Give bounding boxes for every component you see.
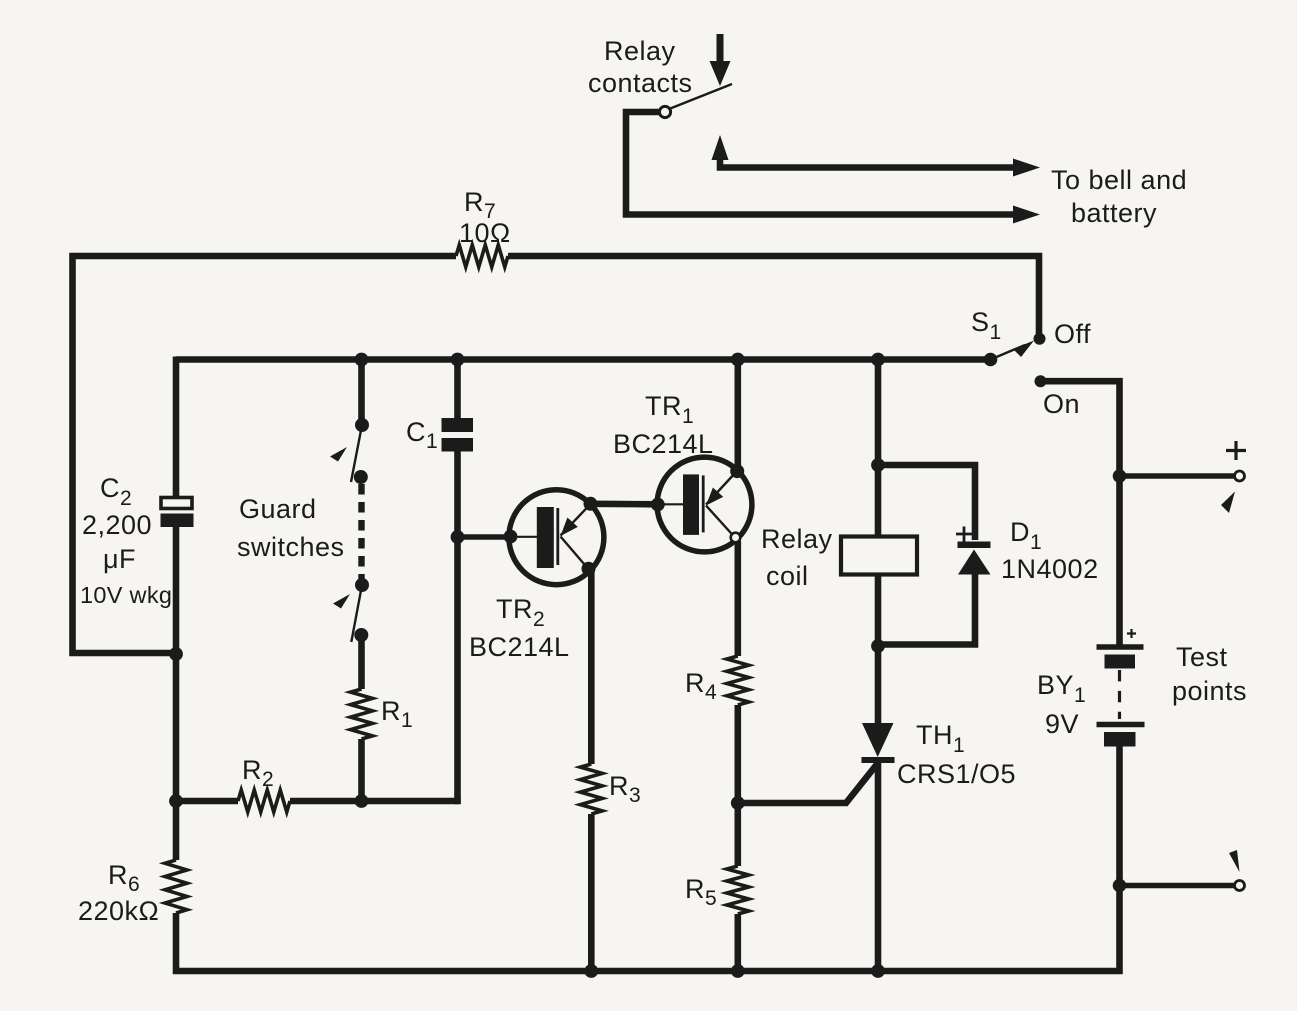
wire: TR1 emitter up to inner rail (734, 360, 741, 472)
arrow: guard switch lower actuation arrow (333, 594, 350, 609)
wire: upper test point lead (1120, 473, 1235, 478)
arrow: lower test probe (1229, 850, 1240, 872)
wire: lower test point lead (1120, 883, 1235, 888)
resistor R3 (580, 764, 602, 814)
wire: top rail right segment down to S1 Off terminal (508, 256, 1039, 334)
svg-text:BC214L: BC214L (469, 632, 570, 662)
label: To bell and battery (1051, 165, 1187, 228)
wire: inner top rail (176, 356, 991, 363)
svg-text:9V: 9V (1045, 709, 1079, 739)
wire: R1 to R2 wire (358, 739, 365, 801)
label: TR2 BC214L (469, 594, 570, 662)
node: TR2 collector terminal (582, 562, 596, 576)
wire: bell output line with up arrow (712, 135, 1041, 177)
capacitor C2 (161, 498, 194, 528)
svg-text:On: On (1043, 389, 1080, 419)
node: TH1 on bottom rail (871, 964, 885, 978)
diode D1 (956, 527, 991, 575)
label: + upper test point (1226, 441, 1246, 460)
wire: gate junction to R5 (734, 803, 741, 866)
node: upper test point terminal (1235, 471, 1245, 481)
node: junction R2 / R6 column (169, 794, 183, 808)
svg-text:CRS1/O5: CRS1/O5 (897, 759, 1016, 789)
transistor TR1 BC214L (657, 457, 752, 552)
svg-text:220kΩ: 220kΩ (78, 896, 159, 926)
label: Guard switches (237, 494, 345, 562)
wire: C1 bottom lead down to R2 wire (458, 452, 461, 802)
transistor TR2 BC214L (509, 490, 604, 585)
wire: D1 junction down to TH1 anode (875, 646, 882, 726)
wire: TR2 collector down to R3 (588, 569, 595, 764)
label: Relay coil (761, 524, 833, 591)
node: lower test point junction (1113, 879, 1127, 893)
node: TR2 base junction on C1 wire (451, 530, 465, 544)
battery BY1 (1097, 629, 1145, 747)
wire: D1 loop top (878, 465, 975, 540)
wire: TH1 gate lead (738, 764, 878, 804)
svg-text:BC214L: BC214L (613, 429, 714, 459)
wire: C2 bottom lead down through R2 junction to R6 (173, 527, 180, 860)
wire: TR1 collector down to R4 (734, 541, 741, 656)
relay coil box (841, 537, 917, 575)
svg-text:coil: coil (766, 561, 809, 591)
svg-text:Test: Test (1176, 642, 1228, 672)
node: junction R1 bottom on R2 wire (355, 794, 369, 808)
svg-text:contacts: contacts (588, 68, 693, 98)
label: BY1 9V (1037, 670, 1086, 739)
wire: R6 to bottom rail (173, 913, 180, 974)
resistor R7 (456, 245, 508, 267)
switch: relay contact blade (669, 84, 732, 109)
wire: R5 to bottom rail (734, 914, 741, 971)
svg-text:points: points (1172, 676, 1247, 706)
wire: relay contact to battery output line (626, 112, 1016, 215)
node: lower test point terminal (1235, 881, 1245, 891)
wire: guard switch branch top lead (358, 360, 365, 426)
svg-text:Relay: Relay (761, 524, 833, 554)
resistor R1 (351, 689, 373, 739)
switch S1 (984, 333, 1046, 367)
node: guard switch upper lower terminal (354, 470, 368, 484)
node: C1 branch on inner rail (451, 353, 465, 367)
wire: dashed guard loop (358, 484, 364, 582)
wire: D1 loop bottom (878, 572, 975, 645)
svg-text:10Ω: 10Ω (459, 218, 511, 248)
svg-text:battery: battery (1071, 198, 1157, 228)
wire: relay coil branch from inner rail (875, 360, 882, 649)
wire: C1 top lead (454, 360, 461, 419)
wire: TR2 emitter to TR1 base (591, 500, 659, 507)
node: TR1 emitter terminal (730, 464, 744, 478)
node: R3 on bottom rail (584, 964, 598, 978)
node: guard switch upper pivot (355, 418, 369, 432)
wire: TH1 cathode to bottom rail (875, 763, 882, 971)
node: TR1 base terminal (651, 498, 665, 512)
node: relay branch on inner rail (871, 353, 885, 367)
label: Test points (1172, 642, 1247, 706)
wire: top rail left segment + outer left drop to C2 bottom (73, 256, 457, 653)
node: TR2 base terminal dot (504, 530, 518, 544)
svg-text:μF: μF (103, 544, 136, 574)
svg-text:switches: switches (237, 532, 345, 562)
label: TR1 BC214L (613, 391, 714, 459)
node: D1 top junction (871, 458, 885, 472)
svg-text:Guard: Guard (239, 494, 317, 524)
label: R6 220k (78, 860, 159, 926)
resistor R4 (727, 656, 749, 705)
label: D1 1N4002 (1001, 517, 1099, 584)
node: gate junction (731, 796, 745, 810)
wire: battery negative down to bottom rail corner (1116, 746, 1123, 974)
node: D1 bottom junction (871, 639, 885, 653)
svg-text:10V wkg: 10V wkg (80, 582, 172, 608)
svg-text:1N4002: 1N4002 (1001, 554, 1099, 584)
wire: On terminal to battery column (1041, 381, 1120, 645)
capacitor C1 (442, 418, 474, 452)
node: guard branch on inner rail (355, 353, 369, 367)
wire: guard branch to R1 (358, 635, 365, 689)
node: junction C2 / outer-left wire (169, 647, 183, 661)
label: Relay contacts (588, 36, 693, 98)
resistor R5 (727, 866, 749, 914)
svg-text:Off: Off (1054, 319, 1091, 349)
label: R7 10ohm (459, 187, 511, 248)
node: guard switch lower pivot (355, 578, 369, 592)
wire: C2 top lead from inner rail (173, 357, 180, 498)
node: relay contact open terminal (659, 106, 670, 117)
resistor R6 (165, 860, 187, 913)
node: upper test point junction (1113, 469, 1127, 483)
svg-text:Relay: Relay (604, 36, 676, 66)
wire: R3 to bottom rail (588, 814, 595, 971)
node: TR1 branch on inner rail (731, 353, 745, 367)
switch: guard switch lower blade (351, 585, 362, 642)
label: TH1 CRS1/05 (897, 720, 1016, 789)
svg-text:To bell and: To bell and (1051, 165, 1187, 195)
resistor R2 with its horizontal wire (176, 798, 238, 805)
node: On terminal (1035, 375, 1047, 387)
label: C2 2,200uF 10Vwkg (80, 473, 172, 608)
switch: guard switch upper blade (351, 425, 362, 482)
wire: bottom rail (173, 968, 1123, 975)
arrow: guard switch upper actuation arrow (330, 447, 347, 462)
arrow: upper test probe (1221, 492, 1235, 514)
node: TR1 collector open dot (731, 533, 741, 543)
node: TR2 emitter terminal (584, 497, 598, 511)
arrow: actuation arrow pointing down at relay contact switch (710, 34, 731, 86)
node: guard switch lower terminal (354, 628, 368, 642)
wire: R4 to gate junction (734, 705, 741, 803)
svg-text:2,200: 2,200 (82, 510, 152, 540)
arrow: to-battery arrowhead (1013, 206, 1040, 224)
thyristor TH1 CRS1/05 (862, 723, 895, 763)
wire: TR2 base lead (458, 534, 514, 539)
node: R5 on bottom rail (731, 964, 745, 978)
